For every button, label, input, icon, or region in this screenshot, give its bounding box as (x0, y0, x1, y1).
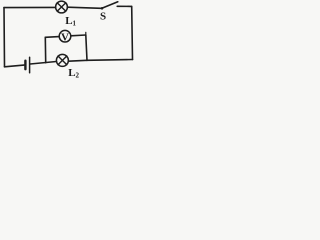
wire battery to L2 (30, 62, 56, 65)
svg-text:L1: L1 (65, 15, 76, 28)
wire L1 to switch (67, 7, 101, 8)
wire bottom-left to battery (5, 65, 25, 67)
svg-text:S: S (100, 11, 106, 23)
wire stub at branch corner (85, 32, 87, 35)
wire branch right vertical (86, 35, 87, 60)
lamp L2 (56, 54, 68, 66)
wire voltmeter branch left vertical (44, 37, 46, 62)
wire left edge (3, 8, 6, 67)
switch S (101, 2, 118, 10)
battery cell (25, 57, 29, 73)
voltmeter V (59, 30, 71, 43)
svg-text:V: V (61, 31, 69, 43)
wire top-left (4, 6, 56, 8)
wire bottom-right (87, 59, 133, 62)
wire branch top-left (45, 36, 59, 39)
wire switch to top-right corner (117, 5, 132, 7)
lamp L1 (56, 1, 68, 13)
wire branch top-right (71, 34, 86, 37)
wire right edge (131, 6, 134, 59)
wire L2 to junction (68, 59, 87, 62)
svg-text:L2: L2 (68, 67, 79, 80)
